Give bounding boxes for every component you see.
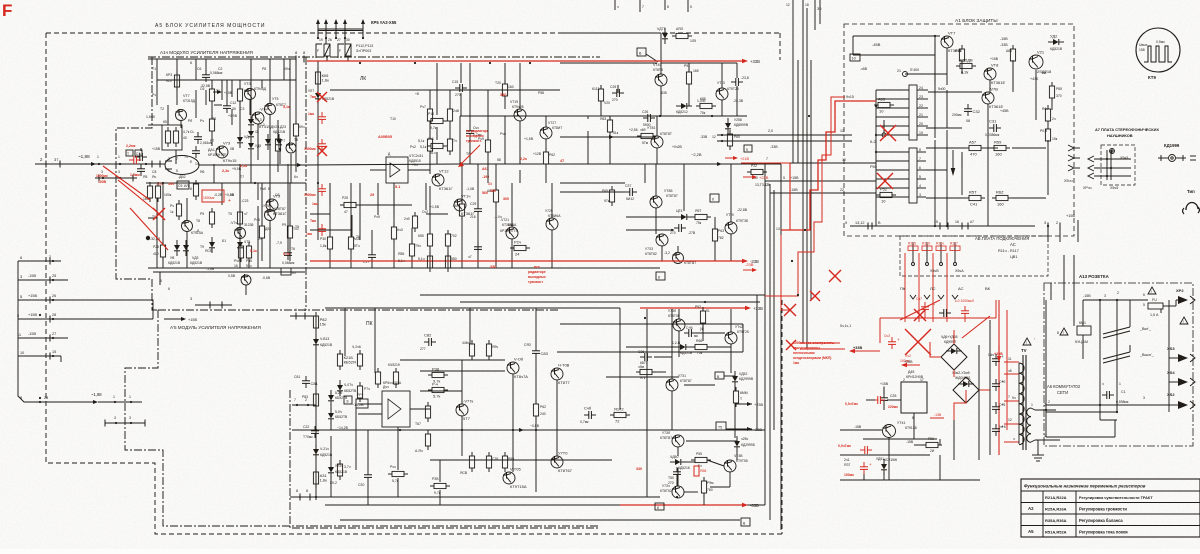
svg-text:V-Об: V-Об <box>514 357 524 362</box>
VT29 transistor <box>546 218 558 230</box>
svg-text:КД521В: КД521В <box>1050 47 1063 51</box>
svg-text:5: 5 <box>783 176 785 180</box>
svg-text:V23,Д23: V23,Д23 <box>273 125 286 129</box>
strip wire y272 <box>153 271 305 273</box>
svg-text:R55ДВ: R55ДВ <box>960 58 973 63</box>
R25 resistor <box>160 245 165 257</box>
R65 res <box>1045 129 1050 141</box>
pk r3 <box>375 372 380 384</box>
svg-text:СЗ0: СЗ0 <box>358 483 364 487</box>
bl dio1 <box>237 242 243 248</box>
svg-text:Регулировка баланса: Регулировка баланса <box>1079 518 1123 523</box>
tl cap <box>474 246 482 248</box>
svg-text:VТ8: VТ8 <box>991 63 999 68</box>
pk trans2 <box>507 362 519 374</box>
svg-text:СчЗ: СчЗ <box>884 334 890 338</box>
svg-text:Я55: Я55 <box>398 252 404 256</box>
svg-text:330: 330 <box>500 93 506 97</box>
svg-text:C76: C76 <box>492 457 498 461</box>
svg-text:F: F <box>317 49 319 53</box>
svg-text:Т6: Т6 <box>356 235 360 239</box>
headphone icon <box>1186 202 1198 210</box>
svg-text:Ч,0Тч: Ч,0Тч <box>344 383 353 387</box>
svg-text:6ММ: 6ММ <box>740 391 748 395</box>
svg-text:КТ361Г: КТ361Г <box>273 211 287 216</box>
svg-text:А7 ПЛАТА СТЕРЕОФОНИЧЕСКИХ: А7 ПЛАТА СТЕРЕОФОНИЧЕСКИХ <box>1095 127 1159 132</box>
mid rail y268 ext <box>306 267 560 269</box>
fuse FU <box>1148 303 1163 309</box>
pk res r72 <box>614 412 626 417</box>
pk trans5 <box>551 456 563 468</box>
svg-text:12: 12 <box>786 3 790 7</box>
svg-text:Т1: Т1 <box>152 67 156 71</box>
svg-text:21: 21 <box>897 69 901 73</box>
svg-text:16: 16 <box>955 220 959 224</box>
ps bottom wires <box>840 479 980 481</box>
svg-text:С82: С82 <box>424 333 432 338</box>
svg-text:1: 1 <box>168 169 170 173</box>
svg-text:5ч,1ч,1: 5ч,1ч,1 <box>840 324 851 328</box>
svg-text:СЯЗ: СЯЗ <box>524 343 531 347</box>
svg-text:-23В: -23В <box>745 262 754 267</box>
tl wires2 <box>487 90 489 140</box>
tick row 3 3 <box>105 422 145 424</box>
svg-text:F: F <box>339 49 341 53</box>
svg-text:КТ8Т8Т: КТ8Т8Т <box>660 132 672 136</box>
R54 res <box>959 49 964 61</box>
svg-text:ХР2: ХР2 <box>1176 288 1184 293</box>
svg-text:ч: ч <box>1102 382 1104 386</box>
svg-text:К85: К85 <box>700 97 706 101</box>
svg-text:-33В: -33В <box>750 503 759 508</box>
svg-text:2ч1: 2ч1 <box>844 458 850 462</box>
svg-text:ЧТ9: ЧТ9 <box>244 240 250 244</box>
svg-text:100: 100 <box>168 182 174 186</box>
tu r5 <box>293 124 298 136</box>
svg-text:Я9ч: Я9ч <box>492 345 498 349</box>
C37 cap <box>629 188 631 196</box>
svg-text:ДА1: ДА1 <box>208 148 215 152</box>
svg-text:+9,5В: +9,5В <box>232 167 242 171</box>
svg-text:выходных: выходных <box>528 275 546 279</box>
R63b res <box>712 229 717 241</box>
svg-text:370: 370 <box>1056 94 1062 98</box>
dashed box A7 <box>1101 145 1135 185</box>
down arrow prot <box>951 168 956 176</box>
svg-text:КТ9: КТ9 <box>1148 75 1156 80</box>
svg-text:24: 24 <box>919 86 923 90</box>
R05 resistor <box>315 72 320 84</box>
pk T50 cap <box>673 471 681 473</box>
svg-text:-15В: -15В <box>28 274 36 278</box>
svg-text:-33В: -33В <box>700 135 708 139</box>
red cap 100mk <box>860 466 868 468</box>
svg-text:АВ.ПЛАТА ПОДКЛЮЧЕНИЯ: АВ.ПЛАТА ПОДКЛЮЧЕНИЯ <box>975 236 1029 241</box>
svg-text:С29: С29 <box>470 202 476 206</box>
R85 res <box>700 103 712 108</box>
outer dashed boundary left side <box>46 33 782 534</box>
svg-text:-13В: -13В <box>934 413 942 417</box>
small box 5 <box>744 145 752 152</box>
bl r2 <box>259 226 264 238</box>
svg-text:5,1к: 5,1к <box>420 145 427 149</box>
pk R9m res <box>701 481 706 493</box>
red arrow +21 <box>725 157 736 159</box>
svg-text:Х5ч5: Х5ч5 <box>1110 186 1118 190</box>
svg-text:1к: 1к <box>170 210 174 214</box>
table hlines <box>1021 490 1200 492</box>
svg-text:КР5ччУД1А: КР5ччУД1А <box>383 381 402 385</box>
svg-text:5,2'б: 5,2'б <box>335 391 342 395</box>
svg-text:6ч: 6ч <box>292 271 296 275</box>
svg-text:31238: 31238 <box>244 223 254 227</box>
svg-text:12: 12 <box>1008 418 1012 422</box>
svg-text:1: 1 <box>129 395 131 399</box>
svg-text:Х5чВ: Х5чВ <box>930 269 939 273</box>
svg-text:С31: С31 <box>989 119 997 124</box>
svg-text:2ч: 2ч <box>1052 117 1056 121</box>
svg-text:S'400: S'400 <box>910 68 919 72</box>
svg-text:Регулировка чувствительности Т: Регулировка чувствительности ТРАКТ <box>1079 496 1153 500</box>
svg-text:УТЗ: УТЗ <box>244 82 251 86</box>
svg-text:У7ЗЗ: У7ЗЗ <box>645 247 653 251</box>
svg-text:5Т7: 5Т7 <box>463 416 471 421</box>
C caps right col <box>992 358 1000 360</box>
XP2 wire top <box>1083 299 1148 301</box>
pk VT48 trans <box>724 460 736 472</box>
svg-text:Т67: Т67 <box>415 422 421 426</box>
svg-text:Р9: Р9 <box>282 223 286 227</box>
svg-text:Р2ч: Р2ч <box>514 240 521 245</box>
R57 res <box>969 145 981 150</box>
strip box <box>281 268 291 275</box>
svg-text:VД: VД <box>244 135 249 139</box>
R85p res <box>1049 86 1054 98</box>
svg-text:-V77к: -V77к <box>463 399 473 404</box>
svg-text:160: 160 <box>508 85 514 89</box>
svg-text:КД521В: КД521В <box>320 343 333 347</box>
long vertical 793 <box>792 0 794 163</box>
red arrow +23 <box>743 176 755 178</box>
pk mid wire y460 <box>430 459 612 461</box>
VT5b transistor <box>265 210 276 221</box>
svg-text:75к: 75к <box>697 351 703 355</box>
svg-text:А81: А81 <box>1006 49 1012 53</box>
svg-text:Р22: Р22 <box>751 164 757 168</box>
table vlines <box>1042 491 1044 537</box>
svg-text:5,1ч: 5,1ч <box>398 259 405 263</box>
pk res mid <box>469 344 474 356</box>
ps black verticals <box>978 345 980 460</box>
svg-text:+: + <box>897 337 900 342</box>
svg-text:КТ8Т82: КТ8Т82 <box>645 252 657 256</box>
pk dio pair a <box>328 395 334 401</box>
svg-text:702: 702 <box>451 234 457 238</box>
svg-text:ХРчч: ХРчч <box>1083 186 1092 190</box>
pk ic wires <box>358 403 382 405</box>
svg-text:500: 500 <box>490 189 496 193</box>
pk C22 cap <box>311 430 319 432</box>
prot h wires <box>928 91 935 93</box>
svg-text:10: 10 <box>852 57 856 61</box>
svg-text:РЗВ: РЗВ <box>432 477 439 481</box>
svg-text:СЗ5: СЗ5 <box>890 394 896 398</box>
tl r1 <box>427 109 432 121</box>
red AV wires <box>904 253 906 322</box>
pk wire y371 <box>420 370 505 372</box>
tl r2 <box>427 139 432 151</box>
svg-text:З×ПР003: З×ПР003 <box>356 49 371 53</box>
svg-text:1б0к: 1б0к <box>164 193 172 197</box>
svg-text:_Вкл'_: _Вкл'_ <box>1139 327 1152 331</box>
pin21 circle <box>903 72 908 77</box>
svg-text:КТ8Т87: КТ8Т87 <box>680 379 692 383</box>
tu wire3 <box>295 80 297 124</box>
svg-text:ТV: ТV <box>1021 348 1027 353</box>
long vertical 811 <box>810 60 812 300</box>
mid wires <box>329 183 331 237</box>
pk R38 res <box>434 483 446 488</box>
svg-text:26: 26 <box>52 294 56 298</box>
svg-text:А5: А5 <box>488 182 492 186</box>
X545 plus pin <box>1110 149 1115 154</box>
svg-text:[ч+5: [ч+5 <box>999 425 1006 429</box>
VT81 transistor <box>651 136 663 148</box>
svg-text:75к: 75к <box>700 111 706 115</box>
svg-text:1: 1 <box>113 395 115 399</box>
svg-text:С6: С6 <box>200 87 204 91</box>
svg-text:Р38: Р38 <box>432 367 440 372</box>
A6 left entry wires <box>1063 255 1065 300</box>
bus y137 <box>560 136 656 138</box>
svg-text:-23В: -23В <box>754 428 762 432</box>
inner dash-dot A5strih left2 <box>290 390 600 528</box>
svg-text:2: 2 <box>1048 400 1050 404</box>
svg-text:А5 БЛОК УСИЛИТЕЛЯ МОЩНОСТИ: А5 БЛОК УСИЛИТЕЛЯ МОЩНОСТИ <box>155 23 266 29</box>
red X prot2 <box>877 173 893 189</box>
svg-text:1,6к: 1,6к <box>322 78 330 83</box>
svg-text:Р58: Р58 <box>538 91 544 95</box>
svg-text:Тч: Тч <box>184 155 188 159</box>
svg-text:8: 8 <box>657 506 659 510</box>
svg-text:51ч: 51ч <box>430 151 436 155</box>
VT21 transistor <box>506 227 518 239</box>
svg-text:160: 160 <box>995 152 1002 157</box>
svg-text:1мк: 1мк <box>312 202 318 206</box>
svg-text:+21В: +21В <box>740 157 749 161</box>
svg-text:Т: Т <box>740 397 742 401</box>
svg-text:Uвых: Uвых <box>1139 43 1148 47</box>
red diag1 <box>103 166 150 200</box>
pk top rail y324 <box>560 323 743 325</box>
svg-text:1: 1 <box>118 155 120 159</box>
R66 res <box>459 204 464 216</box>
svg-text:ЖД0ММД: ЖД0ММД <box>955 376 971 380</box>
pk mid wire y391 <box>420 390 462 392</box>
svg-text:ч25ч: ч25ч <box>741 437 749 441</box>
top edge tick2 <box>639 0 641 12</box>
module top ticks <box>295 56 297 63</box>
right bundle w2 <box>717 140 852 142</box>
long rail y116 <box>460 115 747 117</box>
svg-text:КБ52ТВ: КБ52ТВ <box>335 415 348 419</box>
wire da5 left <box>866 399 875 401</box>
ladder rungs lower <box>876 151 909 153</box>
svg-text:радиаторе: радиаторе <box>528 270 546 274</box>
pk C30 cap <box>364 474 372 476</box>
pk arrow -23 <box>742 428 750 430</box>
A1ch vertical right <box>295 59 297 80</box>
tu low r <box>209 212 214 224</box>
svg-text:ч9м: ч9м <box>638 365 645 369</box>
svg-text:13: 13 <box>776 227 780 231</box>
VT5 transistor <box>265 104 276 115</box>
red ps verticals <box>998 300 1000 455</box>
svg-text:-С23: -С23 <box>241 199 248 203</box>
svg-text:8: 8 <box>190 61 192 65</box>
svg-text:КР3: КР3 <box>166 73 172 77</box>
svg-text:1500мк: 1500мк <box>203 196 215 200</box>
bridge rect 2 <box>953 377 979 403</box>
pk R92 res <box>700 311 705 323</box>
long vertical 765 <box>764 164 766 505</box>
svg-text:Рч7: Рч7 <box>420 105 426 109</box>
svg-text:КТ361Е: КТ361Е <box>991 80 1005 85</box>
svg-text:470: 470 <box>970 152 977 157</box>
svg-text:+15В: +15В <box>880 382 889 386</box>
CL capacitor <box>194 136 202 138</box>
svg-text:С26: С26 <box>642 110 648 114</box>
svg-text:11: 11 <box>1008 357 1012 361</box>
svg-text:Т02: Т02 <box>293 227 299 231</box>
C1 input cap <box>139 153 141 161</box>
svg-text:5,1к: 5,1к <box>283 105 290 109</box>
top edge tick1 <box>614 0 616 10</box>
svg-text:Р92: Р92 <box>695 305 701 309</box>
svg-text:ЦЕ1: ЦЕ1 <box>676 209 683 213</box>
inner dash-dot A5strih left <box>125 310 600 526</box>
svg-text:0В: 0В <box>230 147 235 151</box>
svg-text:Т: Т <box>127 152 129 156</box>
svg-text:УТ81: УТ81 <box>647 126 655 130</box>
pk trans3 <box>551 368 563 380</box>
T20 res <box>502 84 507 96</box>
svg-text:17: 17 <box>920 378 924 382</box>
svg-text:3: 3 <box>1044 221 1046 225</box>
R41 res <box>431 143 443 148</box>
svg-text:КД521В: КД521В <box>190 261 203 265</box>
svg-text:Р0,5: Р0,5 <box>1040 129 1047 133</box>
svg-text:КЧ5219: КЧ5219 <box>388 363 400 367</box>
svg-text:9ч15: 9ч15 <box>846 95 854 99</box>
fuse F2 <box>338 44 344 58</box>
C32 cap <box>964 108 972 110</box>
pk dio2 <box>313 449 319 455</box>
bundle wires y295 <box>420 294 765 296</box>
svg-text:ч: ч <box>617 5 619 9</box>
arrow +25 left <box>903 364 920 366</box>
R469 res <box>641 133 653 138</box>
svg-text:КБ52ТВ: КБ52ТВ <box>335 396 348 400</box>
red arrow -23b <box>743 269 755 271</box>
svg-text:Тч: Тч <box>453 139 457 143</box>
right bundle w1 <box>717 134 852 136</box>
svg-text:-7,9: -7,9 <box>276 241 282 245</box>
pk IC box D44 <box>382 391 410 427</box>
bl wire2 <box>289 183 291 226</box>
svg-text:КТ8Т8: КТ8Т8 <box>653 68 663 72</box>
svg-text:FU: FU <box>1152 298 1157 302</box>
svg-text:1500мк: 1500мк <box>96 174 108 178</box>
out wires v <box>660 33 662 74</box>
svg-text:Р55: Р55 <box>696 452 702 456</box>
svg-text:+8: +8 <box>415 92 419 96</box>
red cap col x320 d <box>318 188 326 190</box>
svg-text:С1: С1 <box>1121 390 1126 394</box>
red input cap <box>133 156 135 164</box>
svg-text:0,7мк: 0,7мк <box>580 420 589 424</box>
svg-text:К-2: К-2 <box>870 140 876 144</box>
svg-text:47: 47 <box>344 210 348 214</box>
svg-text:~0,5В: ~0,5В <box>530 424 540 428</box>
svg-text:УТ5: УТ5 <box>272 97 278 101</box>
VT7 prot transistor <box>941 36 953 48</box>
svg-text:+15В: +15В <box>1066 214 1075 218</box>
svg-text:1500мк: 1500мк <box>304 193 316 197</box>
dashed AV box <box>900 236 1048 276</box>
svg-text:2ч9: 2ч9 <box>404 217 410 221</box>
fuse feed wires <box>317 31 319 38</box>
dashed box A1 protection <box>844 24 1074 236</box>
svg-text:2: 2 <box>49 255 51 259</box>
svg-text:3: 3 <box>114 416 116 420</box>
svg-text:40: 40 <box>183 136 187 140</box>
svg-text:+45В: +45В <box>1000 109 1009 113</box>
R51p res <box>969 195 981 200</box>
svg-text:1мк: 1мк <box>306 232 312 236</box>
svg-text:Р62: Р62 <box>549 153 555 157</box>
R46 R45 resistors <box>238 246 243 258</box>
red diag to X <box>118 180 156 211</box>
svg-text:УД2: УД2 <box>1050 34 1058 39</box>
pk C36 cap <box>644 353 646 361</box>
svg-text:VД7Т: VД7Т <box>657 27 666 31</box>
select box K5 <box>162 125 182 150</box>
svg-text:КТ315Д: КТ315Д <box>259 124 273 129</box>
red X big ps <box>905 329 931 355</box>
pk left col wire <box>315 316 317 500</box>
input arrow <box>86 163 94 165</box>
pk out wires <box>646 309 648 497</box>
svg-text:6: 6 <box>1143 293 1145 297</box>
svg-text:Т8: Т8 <box>196 219 200 223</box>
red pair wires left <box>800 342 840 344</box>
svg-text:-1,0В: -1,0В <box>466 187 475 191</box>
svg-text:277: 277 <box>420 347 426 351</box>
X545 inner verticals <box>1106 150 1108 180</box>
VT19 transistor <box>514 109 526 121</box>
svg-text:330: 330 <box>490 265 496 269</box>
C35 cap <box>880 397 888 399</box>
C9 box <box>177 181 189 189</box>
transformer coils <box>1019 363 1024 373</box>
pk R66b res <box>695 344 707 349</box>
pk res col1 <box>425 406 430 418</box>
transformer gnd <box>1032 454 1044 456</box>
svg-text:ЧТС2ч31: ЧТС2ч31 <box>409 154 423 158</box>
dash-dot box A6 kommutator <box>1044 283 1193 446</box>
opamp DA1 oval <box>165 156 199 175</box>
